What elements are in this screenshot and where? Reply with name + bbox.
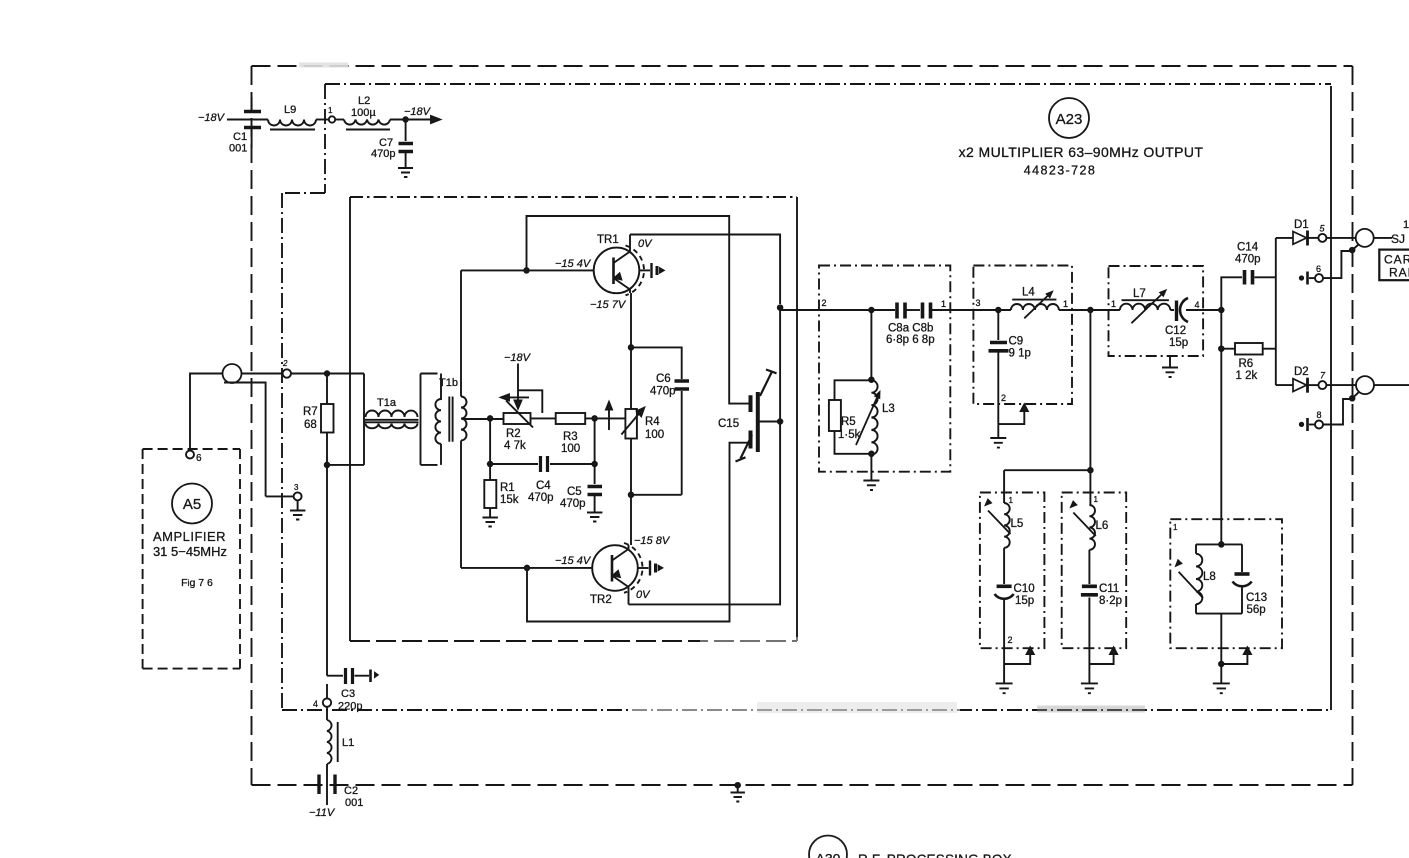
svg-text:R3: R3	[563, 431, 578, 443]
svg-text:68: 68	[304, 419, 317, 431]
svg-text:D1: D1	[1294, 219, 1309, 231]
svg-text:TR1: TR1	[597, 234, 619, 246]
svg-text:6: 6	[1316, 264, 1321, 274]
wire TR1 collector top	[630, 235, 780, 305]
transistor TR2 case dashed arc	[624, 543, 643, 593]
svg-text:L9: L9	[284, 104, 296, 116]
wire down to C4/C5	[594, 418, 596, 464]
wire	[291, 373, 364, 375]
ground	[398, 168, 413, 177]
wire	[335, 119, 344, 121]
wire TR2 emitter bottom	[629, 425, 781, 604]
svg-text:3: 3	[976, 298, 981, 308]
junction main	[1219, 308, 1224, 313]
arrow at R4 input	[608, 408, 610, 430]
wire -18V to R2 wiper	[518, 364, 542, 414]
svg-text:−15 4V: −15 4V	[555, 258, 592, 270]
ground on bottom border	[735, 783, 740, 788]
junction	[869, 308, 874, 313]
inductor L9	[268, 120, 316, 126]
svg-text:−15 4V: −15 4V	[555, 555, 592, 567]
TR2 case earth	[638, 567, 649, 569]
capacitor C8b	[923, 303, 931, 319]
wire to node 6	[190, 374, 223, 450]
pin2 link to box	[1089, 652, 1113, 664]
junction TR2 base	[525, 566, 530, 571]
svg-text:R7: R7	[303, 406, 318, 418]
svg-text:4: 4	[313, 699, 318, 709]
junction after L4	[1088, 308, 1093, 313]
svg-text:Fig 7 6: Fig 7 6	[181, 577, 213, 589]
wire	[1086, 309, 1109, 311]
node 3	[294, 492, 302, 500]
node/junction	[403, 117, 408, 122]
pin2 link to box	[998, 409, 1024, 424]
capacitor C9	[997, 310, 999, 340]
pin 8 cap symbol	[1300, 423, 1303, 426]
svg-text:100: 100	[561, 443, 580, 455]
capacitor C5	[594, 464, 596, 484]
resistor R4 (preset)	[630, 293, 632, 409]
transistor TR2	[592, 545, 638, 591]
svg-text:1 2k: 1 2k	[1236, 370, 1258, 382]
svg-text:CARR: CARR	[1384, 253, 1409, 267]
wire down to C3/node4	[326, 465, 328, 676]
A30 outer box	[252, 66, 1353, 785]
junction	[1219, 662, 1224, 667]
svg-text:C10: C10	[1014, 583, 1035, 595]
svg-text:T1b: T1b	[439, 377, 458, 389]
svg-text:1: 1	[1173, 523, 1178, 532]
scan smudge amp box bottom	[700, 637, 800, 645]
junction	[629, 345, 634, 350]
junction	[629, 493, 634, 498]
svg-text:L4: L4	[1022, 287, 1035, 299]
wire to ground	[1003, 664, 1005, 683]
wire TR2 base	[461, 567, 593, 569]
svg-text:1: 1	[1094, 495, 1099, 504]
capacitor C15 (split stator)	[729, 399, 749, 404]
pin 8 branch	[1323, 399, 1352, 425]
svg-text:15p: 15p	[1169, 337, 1188, 349]
transformer T1a right bracket	[421, 374, 438, 465]
wire up to C14	[1221, 277, 1242, 310]
svg-text:2: 2	[1001, 393, 1006, 403]
svg-text:4: 4	[1195, 300, 1200, 310]
svg-text:L5: L5	[1011, 518, 1024, 530]
svg-text:R5: R5	[841, 416, 856, 428]
A30 designator circle (bottom, clipped)	[809, 836, 847, 858]
svg-text:1·5k: 1·5k	[838, 429, 861, 441]
wire feedback top	[527, 216, 730, 399]
ground	[290, 501, 305, 520]
svg-text:15p: 15p	[1015, 595, 1034, 607]
wire diode bus	[1275, 238, 1277, 385]
svg-text:9 1p: 9 1p	[1009, 348, 1031, 360]
svg-text:A23: A23	[1056, 111, 1083, 128]
scan smudge top border	[299, 62, 348, 72]
svg-text:31 5−45MHz: 31 5−45MHz	[153, 544, 227, 559]
svg-text:A5: A5	[183, 496, 201, 513]
capacitor C13 (trimmer)	[1235, 572, 1250, 576]
svg-text:470p: 470p	[560, 498, 586, 510]
wire -18V feed	[227, 119, 268, 121]
node 5	[1318, 234, 1326, 242]
wire L5/L6 feed	[1004, 310, 1090, 505]
wire to connector	[1327, 237, 1357, 239]
svg-text:TR2: TR2	[590, 594, 612, 606]
svg-text:L8: L8	[1203, 571, 1216, 583]
junction	[869, 452, 874, 457]
svg-text:L6: L6	[1096, 520, 1109, 532]
wire TR1 base	[461, 269, 594, 271]
resistor R7	[326, 374, 328, 405]
svg-text:−18V: −18V	[198, 112, 226, 124]
svg-text:15k: 15k	[500, 494, 519, 506]
wire to ground	[1088, 664, 1090, 683]
svg-text:C12: C12	[1165, 325, 1186, 337]
svg-text:R.F. PROCESSING BOX: R.F. PROCESSING BOX	[858, 852, 1012, 858]
resistor R6	[1221, 348, 1235, 350]
capacitor C6	[631, 347, 682, 379]
ground	[483, 518, 498, 527]
svg-text:8: 8	[1317, 410, 1322, 420]
inductor L1	[326, 707, 328, 720]
A5 designator circle	[172, 484, 212, 524]
svg-text:C14: C14	[1237, 242, 1259, 254]
svg-text:−18V: −18V	[404, 106, 432, 118]
transistor TR1	[594, 248, 640, 294]
inductor L6	[1089, 505, 1095, 550]
svg-text:8·2p: 8·2p	[1099, 595, 1122, 607]
inductor L2	[344, 120, 390, 125]
svg-text:1: 1	[328, 106, 333, 115]
junction	[1088, 468, 1093, 473]
A5 box	[143, 449, 240, 669]
resistor R3	[556, 413, 586, 424]
transformer T1a primary winding	[366, 411, 418, 418]
inductor L3	[871, 380, 877, 454]
svg-text:100µ: 100µ	[351, 107, 376, 119]
svg-text:470p: 470p	[650, 386, 676, 398]
diode D1	[1276, 237, 1293, 239]
svg-text:RAN: RAN	[1389, 266, 1409, 280]
wire T1a bottom link	[327, 464, 364, 466]
svg-text:C13: C13	[1246, 592, 1267, 604]
wire	[906, 309, 920, 311]
wire to ground	[1220, 664, 1222, 683]
svg-text:470p: 470p	[1235, 254, 1261, 266]
wire feedback bottom	[527, 447, 730, 622]
wire	[316, 119, 328, 121]
capacitor C2 (feedthrough on border)	[326, 764, 328, 772]
svg-text:2: 2	[822, 298, 827, 308]
svg-text:56p: 56p	[1247, 604, 1266, 616]
ground under box	[1169, 356, 1171, 367]
node 8	[1315, 421, 1323, 429]
wire L3 branch	[870, 310, 872, 380]
wire R2-R3	[531, 417, 556, 419]
node 2	[283, 369, 291, 377]
ground	[1081, 683, 1098, 693]
junction	[325, 371, 330, 376]
svg-text:C11: C11	[1099, 583, 1119, 595]
wire L8 bottom	[1220, 614, 1222, 664]
box L6/C11	[1062, 493, 1127, 649]
svg-text:1: 1	[1009, 496, 1014, 505]
svg-text:T1a: T1a	[377, 397, 397, 409]
svg-text:C5: C5	[567, 486, 582, 498]
box L7/C12	[1109, 266, 1204, 356]
junction	[592, 416, 597, 421]
wire	[819, 309, 895, 311]
transformer T1a core	[364, 420, 419, 423]
svg-text:001: 001	[345, 797, 363, 809]
ground	[1213, 683, 1230, 693]
TR1 case earth	[639, 269, 650, 271]
svg-text:A30: A30	[816, 851, 841, 858]
connector SJ top	[1356, 229, 1374, 247]
inductor L8	[1196, 554, 1202, 604]
pin 6 cap symbol	[1300, 276, 1303, 279]
wire main input	[242, 373, 283, 375]
svg-text:−11V: −11V	[309, 807, 336, 819]
svg-text:2: 2	[282, 359, 288, 368]
svg-text:L2: L2	[358, 95, 370, 107]
svg-text:C2: C2	[344, 785, 358, 797]
resistor R5	[835, 380, 872, 400]
svg-text:L3: L3	[882, 403, 895, 415]
svg-text:001: 001	[229, 143, 247, 155]
svg-text:1: 1	[1403, 219, 1409, 231]
svg-text:−18V: −18V	[504, 352, 532, 364]
wire -18V arrow out	[390, 119, 433, 121]
transformer T1a secondary winding	[366, 424, 418, 429]
svg-text:0V: 0V	[638, 238, 653, 250]
svg-text:4 7k: 4 7k	[504, 440, 526, 452]
svg-text:C3: C3	[341, 688, 355, 700]
inductor L5	[1004, 503, 1010, 548]
transformer T1a left bracket	[363, 374, 365, 465]
svg-text:470p: 470p	[371, 148, 395, 160]
amplifier inner box	[350, 196, 797, 198]
svg-text:C9: C9	[1009, 336, 1024, 348]
box L5/C10	[980, 493, 1045, 649]
connector input	[223, 364, 242, 383]
transformer T1b primary winding	[435, 374, 441, 465]
wire output to L3 box	[780, 308, 895, 425]
L8/C13 parallel frame	[1196, 544, 1242, 613]
node 1	[329, 116, 335, 122]
junction	[869, 377, 874, 382]
pin 6 branch	[1323, 251, 1352, 278]
svg-text:R2: R2	[506, 428, 521, 440]
box C9/L4	[973, 266, 1072, 405]
svg-text:C8a C8b: C8a C8b	[888, 323, 933, 335]
svg-text:220p: 220p	[338, 701, 362, 713]
wire down to R6 and L8	[1220, 310, 1222, 545]
wire	[1003, 548, 1005, 584]
wire R3 right	[585, 417, 625, 419]
svg-text:L7: L7	[1133, 288, 1146, 300]
svg-text:D2: D2	[1294, 366, 1309, 378]
svg-text:C15: C15	[718, 418, 739, 430]
capacitor C8a	[897, 303, 905, 319]
box L3/C8	[819, 266, 950, 472]
ground	[996, 683, 1013, 693]
pin link to box	[1221, 652, 1247, 664]
svg-text:C1: C1	[233, 131, 247, 143]
capacitor C12 (trimmer)	[1175, 301, 1178, 322]
svg-text:R6: R6	[1239, 358, 1254, 370]
junction	[592, 462, 597, 467]
wire out to C9 box	[932, 309, 998, 311]
svg-text:R1: R1	[500, 482, 515, 494]
ground	[863, 481, 879, 491]
inductor L7	[1120, 304, 1170, 310]
connector bottom	[1356, 376, 1374, 394]
inductor L4	[1011, 304, 1059, 310]
junction	[488, 416, 493, 421]
A23 box	[282, 84, 1331, 710]
svg-text:6·8p 6 8p: 6·8p 6 8p	[886, 334, 935, 346]
capacitor C11	[1081, 586, 1098, 595]
svg-text:−15 7V: −15 7V	[590, 299, 627, 311]
pin2 link to box	[1004, 652, 1030, 664]
svg-text:3: 3	[294, 483, 299, 492]
node 4	[326, 684, 328, 698]
junction R6	[1219, 346, 1224, 351]
transformer T1b core	[449, 397, 452, 442]
wire to ground	[997, 424, 999, 437]
box L8/C13	[1170, 519, 1282, 648]
svg-text:SJ: SJ	[1391, 232, 1405, 246]
wire R2 left down to R1	[489, 418, 491, 464]
A23 box right solid edge	[1330, 86, 1332, 710]
node 6	[186, 451, 194, 459]
wire to ground	[870, 454, 872, 480]
diode D2	[1276, 384, 1293, 386]
scan smudge bottom border light	[630, 702, 1145, 715]
svg-text:44823-728: 44823-728	[1024, 164, 1096, 178]
junction TR1 base	[524, 268, 529, 273]
junction	[996, 308, 1001, 313]
junction	[325, 463, 330, 468]
svg-text:470p: 470p	[528, 492, 554, 504]
transistor TR1 case dashed arc	[626, 246, 645, 296]
junction C15 rotor	[778, 419, 783, 424]
ground	[990, 438, 1006, 448]
capacitor C4	[490, 463, 538, 465]
svg-text:1: 1	[1063, 299, 1068, 309]
svg-text:R4: R4	[645, 416, 660, 428]
svg-text:1: 1	[941, 299, 946, 309]
svg-text:2: 2	[1008, 635, 1013, 645]
svg-text:C6: C6	[656, 373, 671, 385]
capacitor C7	[405, 120, 407, 142]
A23 designator circle	[1049, 98, 1089, 138]
junction	[488, 462, 493, 467]
wire	[1088, 550, 1090, 584]
CAR RA box	[1379, 250, 1409, 281]
resistor R1	[489, 464, 491, 480]
svg-text:0V: 0V	[636, 589, 651, 601]
transformer T1b secondary winding	[461, 270, 467, 568]
svg-text:1: 1	[1111, 299, 1116, 309]
junction L8 top	[1219, 542, 1224, 547]
node 7	[1318, 381, 1326, 389]
capacitor C14	[1245, 270, 1253, 285]
node 6	[1315, 274, 1323, 282]
junction output	[778, 305, 783, 310]
capacitor C3	[327, 675, 343, 677]
svg-text:x2 MULTIPLIER 63–90MHz OUTPUT: x2 MULTIPLIER 63–90MHz OUTPUT	[959, 144, 1204, 160]
wire to connector	[1327, 384, 1357, 386]
transformer T1b centre tap	[462, 418, 503, 420]
svg-text:C4: C4	[536, 480, 551, 492]
svg-text:L1: L1	[342, 737, 354, 749]
resistor R2 (preset)	[504, 413, 531, 424]
svg-text:100: 100	[645, 429, 664, 441]
svg-text:AMPLIFIER: AMPLIFIER	[153, 529, 226, 544]
capacitor C1 (feedthrough on border)	[244, 112, 261, 128]
svg-text:6: 6	[196, 453, 202, 464]
wire shield	[224, 383, 293, 497]
ground	[587, 513, 602, 522]
svg-text:−15 8V: −15 8V	[634, 535, 671, 547]
capacitor C10 (trimmer)	[997, 584, 1012, 588]
